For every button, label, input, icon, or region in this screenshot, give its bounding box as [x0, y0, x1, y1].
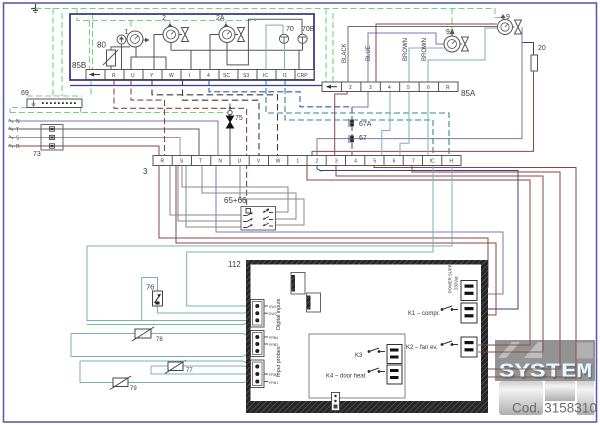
svg-text:PRB4: PRB4	[269, 336, 278, 340]
svg-text:6: 6	[427, 85, 430, 91]
terminal strip 85A	[322, 82, 458, 92]
wire maroon to motor 9	[376, 24, 497, 82]
svg-text:S3: S3	[243, 73, 249, 79]
wire strip3 T to 65+66 right pin 2	[202, 166, 296, 219]
wire ground 85B below box	[90, 80, 92, 97]
svg-text:IC: IC	[430, 159, 435, 165]
connector digital inputs	[251, 300, 269, 328]
connector input probes lower	[251, 360, 269, 388]
svg-text:4: 4	[354, 159, 357, 165]
green solid bottom wire	[87, 321, 251, 325]
probe 78	[132, 327, 163, 343]
box 85B	[70, 14, 314, 80]
svg-text:1: 1	[296, 159, 299, 165]
wire maroon from 20 to strip3-1	[312, 71, 534, 156]
svg-text:T: T	[199, 159, 202, 165]
svg-text:70B: 70B	[302, 26, 315, 33]
svg-text:3: 3	[369, 85, 372, 91]
svg-text:Digital inputs: Digital inputs	[276, 298, 282, 330]
wire S from 73	[8, 138, 180, 156]
wire ground stub motor2A	[225, 21, 227, 25]
svg-text:U: U	[131, 73, 135, 79]
svg-text:69: 69	[21, 90, 29, 97]
wire maroon strip3-1 to K1	[307, 166, 530, 345]
teal wire IC loop left	[187, 166, 433, 306]
wire maroon dashed branch to strip3 R	[164, 100, 166, 155]
svg-text:77: 77	[186, 368, 193, 374]
connector input probes upper	[251, 331, 269, 357]
svg-text:80: 80	[97, 41, 106, 50]
fuse 75	[227, 104, 243, 156]
wire maroon strip3R to PS	[159, 166, 488, 287]
svg-text:75: 75	[235, 115, 243, 122]
wire strip3 to 65+66 left pin 3	[186, 166, 241, 227]
wire teal 85A-4 jog down	[382, 91, 390, 155]
svg-text:5: 5	[373, 159, 376, 165]
wire teal 85A-6 to strip3	[427, 91, 429, 155]
svg-text:Input probes: Input probes	[276, 346, 282, 377]
lamp 70B	[298, 26, 315, 43]
relay block a	[291, 273, 305, 295]
wire navy to 20	[522, 43, 534, 56]
svg-text:3: 3	[335, 159, 338, 165]
wire slate motor9 to strip3-2	[317, 27, 522, 156]
wire black dashed I to strip3 V	[183, 80, 260, 156]
wire navy link 85B to 85A ground	[70, 85, 322, 87]
wire ground drop to 69	[52, 9, 54, 97]
svg-text:2A: 2A	[216, 15, 225, 22]
svg-text:5: 5	[407, 85, 410, 91]
svg-text:76: 76	[146, 283, 154, 292]
svg-text:Cod. 3158310: Cod. 3158310	[512, 401, 597, 416]
svg-text:N: N	[16, 119, 20, 125]
svg-text:7: 7	[412, 159, 415, 165]
resistor 20	[531, 55, 538, 71]
wire ground drops to 85A	[325, 9, 327, 83]
svg-text:2: 2	[316, 159, 319, 165]
wire strip3 U to 65+66 right pin 3	[240, 166, 304, 225]
svg-text:H: H	[449, 159, 453, 165]
svg-text:R: R	[16, 144, 20, 150]
motor 9A	[444, 29, 469, 52]
wire teal dashed IC to strip3 H	[266, 79, 449, 155]
svg-text:I1: I1	[283, 73, 287, 79]
svg-text:R: R	[161, 159, 165, 165]
internal wires 85B: 2A to 70B rail	[227, 19, 302, 65]
relay block b	[307, 293, 321, 312]
svg-text:I: I	[189, 73, 190, 79]
terminal strip 85B	[86, 70, 314, 80]
wire maroon dashed R to 65+66 top pin	[114, 80, 247, 207]
svg-text:230Vac: 230Vac	[454, 276, 459, 290]
wire ground drop 9A	[451, 9, 453, 35]
wire T from 73	[8, 129, 199, 155]
svg-text:SC: SC	[223, 73, 230, 79]
motor 1	[117, 29, 166, 70]
svg-text:IC: IC	[263, 73, 268, 79]
wire ground drop into 85B	[77, 9, 256, 21]
svg-text:70: 70	[286, 26, 294, 33]
svg-text:112: 112	[228, 260, 241, 269]
svg-text:4: 4	[388, 85, 391, 91]
bottom connector fuse	[332, 393, 340, 411]
wire green dashed long to 75	[10, 112, 227, 114]
internal rail to CRP and 70B bottom	[171, 49, 303, 51]
svg-text:W: W	[276, 159, 281, 165]
svg-text:6: 6	[393, 159, 396, 165]
73 feeder wires	[16, 119, 20, 150]
svg-text:BROWN: BROWN	[422, 38, 428, 61]
svg-text:67A: 67A	[359, 121, 372, 128]
wire slate strip3N to PS	[216, 166, 503, 294]
svg-text:73: 73	[33, 151, 41, 158]
svg-text:2: 2	[349, 85, 352, 91]
wire ground drop to 69 b	[61, 13, 63, 96]
wire ground stub motor1	[130, 21, 132, 28]
wire BROWN 1	[409, 48, 444, 82]
switch block 65+66	[224, 196, 276, 230]
svg-text:R: R	[112, 73, 116, 79]
svg-text:78: 78	[156, 337, 163, 343]
svg-text:K1 – compr.: K1 – compr.	[408, 311, 440, 317]
inner relay box	[309, 334, 405, 398]
svg-text:R: R	[446, 85, 450, 91]
wire teal dashed I1 to strip3 IC	[285, 79, 433, 155]
wire maroon 85A-2 to strip3-3	[335, 91, 347, 155]
svg-text:3: 3	[143, 167, 148, 176]
lamp 70	[279, 26, 293, 43]
teal wire H loop left	[87, 166, 452, 321]
svg-text:W: W	[169, 73, 174, 79]
svg-text:POWER SUPPLY: POWER SUPPLY	[448, 260, 453, 293]
wire maroon strip3-3 to K2	[336, 166, 543, 352]
fuse block 73	[33, 125, 63, 159]
wire ground stub motor2	[169, 21, 171, 25]
teal wire IC to lamp 70	[266, 25, 283, 69]
svg-text:4: 4	[207, 73, 210, 79]
svg-text:BLUE: BLUE	[366, 45, 372, 61]
svg-text:BROWN: BROWN	[403, 38, 409, 61]
left tick marks	[9, 119, 13, 148]
connector 67	[349, 135, 354, 143]
svg-text:T: T	[16, 128, 19, 134]
wire blue dashed 4 to strip3 4	[209, 79, 352, 155]
probe 78 loop	[71, 334, 251, 337]
terminal strip 3	[153, 156, 461, 166]
svg-text:85A: 85A	[461, 89, 476, 98]
svg-text:K2 – fan ev.: K2 – fan ev.	[406, 345, 438, 351]
svg-text:U: U	[238, 159, 242, 165]
teal wire lamp 70 to I1	[284, 43, 286, 69]
probe 77 loop	[151, 365, 251, 368]
svg-text:CRP: CRP	[297, 73, 308, 79]
wire strip3 to 65+66 left pin 1	[170, 166, 241, 215]
wire maroon strip3-7 to K4	[404, 166, 560, 369]
wire BLUE	[368, 33, 444, 82]
probe 77	[165, 360, 193, 374]
wire black dashed Y to strip3 W	[152, 80, 278, 156]
wire N from 73	[8, 121, 218, 155]
svg-text:PRB1: PRB1	[269, 381, 278, 385]
svg-text:79: 79	[130, 386, 137, 392]
svg-text:K4 – door heat: K4 – door heat	[326, 374, 366, 380]
wire slate 85A-3 junction	[352, 91, 368, 107]
wire green dashed around 69	[27, 95, 82, 97]
probe 79 loop	[80, 361, 251, 365]
svg-text:65+66: 65+66	[224, 196, 247, 205]
svg-text:67: 67	[359, 135, 367, 142]
wire R from 73	[8, 146, 159, 155]
motor 2	[154, 15, 191, 70]
wire maroon dashed U join	[131, 80, 165, 101]
svg-text:N: N	[218, 159, 222, 165]
svg-text:20: 20	[538, 45, 546, 52]
wire BLACK	[348, 27, 497, 83]
wire teal 85A-5 jog down	[400, 91, 409, 155]
teal wire door switch 76 branch	[142, 278, 158, 321]
wire BROWN 2	[428, 28, 497, 82]
svg-text:SYSTEM: SYSTEM	[499, 361, 592, 384]
probe 79	[110, 376, 137, 392]
connector 67A	[349, 119, 354, 127]
svg-text:PRB3: PRB3	[269, 343, 278, 347]
svg-text:K3: K3	[355, 353, 363, 359]
resistor 80	[97, 41, 130, 70]
wire segments visible over logo	[478, 340, 576, 377]
ground symbol top-left	[31, 4, 40, 13]
svg-text:2: 2	[162, 15, 166, 22]
svg-text:BLACK: BLACK	[342, 43, 348, 63]
wire strip3 to 65+66 left pin 2	[178, 166, 241, 221]
SYSTEM watermark logo	[495, 340, 595, 416]
svg-text:85B: 85B	[72, 61, 86, 70]
door switch 76	[146, 283, 163, 307]
wire maroon strip3-5 to K4	[374, 166, 576, 377]
wire navy strip3-2 to K1	[317, 166, 518, 309]
wire green ground bus top	[10, 9, 503, 113]
wire maroon strip3-T to K1 bottom	[176, 166, 496, 315]
connector 69	[21, 90, 82, 108]
motor 2A	[210, 15, 245, 70]
wire strip3 S to 65+66 right pin 1	[182, 166, 288, 212]
motor 9	[498, 14, 522, 35]
wire ground pair into 85B plus terminal	[89, 21, 91, 70]
